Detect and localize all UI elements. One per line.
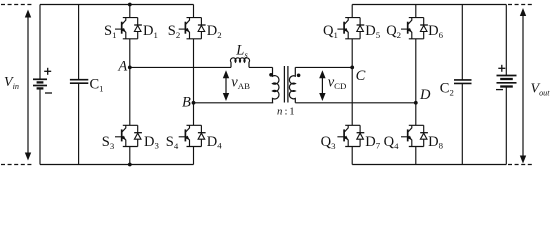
wire top-right dashed lead-in <box>508 4 534 6</box>
svg-text:B: B <box>182 95 191 111</box>
battery V_out load <box>496 65 517 90</box>
wire transformer to node D <box>295 102 416 104</box>
diode D3 <box>134 125 142 146</box>
node C dot <box>350 66 354 70</box>
capacitor C2 <box>454 80 472 84</box>
wire leg1L bottom stub <box>129 147 131 165</box>
battery V_in source <box>33 68 52 93</box>
wire inductor to transformer <box>249 66 273 68</box>
transformer secondary polarity dot <box>297 74 301 78</box>
inductor Ls <box>230 58 249 68</box>
wire transformer to node C <box>295 66 352 68</box>
diode D1 <box>134 18 142 39</box>
wire node B to transformer <box>194 102 274 104</box>
switch Q2 (IGBT) <box>401 18 424 39</box>
junction dot leg1L top <box>128 3 132 7</box>
wire leg1R top stub <box>351 5 353 18</box>
transformer secondary winding <box>289 67 295 102</box>
wire leg1R mid (through node C) <box>351 39 353 126</box>
wire C1 upper stub <box>78 5 80 80</box>
wire bottom rail left <box>40 164 194 166</box>
switch S1 (IGBT) <box>115 18 138 39</box>
v_CD voltage arrow <box>319 70 325 101</box>
wire bottom-right dashed lead-in <box>508 164 534 166</box>
v_AB voltage arrow <box>223 70 229 101</box>
wire leg2L bottom stub <box>193 147 195 165</box>
wire leg2R bottom stub <box>415 147 417 165</box>
svg-text:A: A <box>117 59 127 75</box>
wire top rail right <box>352 4 506 6</box>
wire C2 upper stub <box>461 5 463 80</box>
switch Q1 (IGBT) <box>337 18 360 39</box>
wire top-left dashed lead-in <box>1 4 34 6</box>
wire bottom rail right <box>352 164 506 166</box>
switch S4 (IGBT) <box>179 125 202 146</box>
wire right rail upper <box>505 5 507 76</box>
wire leg2R mid (through node D) <box>415 39 417 126</box>
node A dot <box>128 66 132 70</box>
diode D5 <box>357 18 365 39</box>
wire right rail lower <box>505 87 507 165</box>
node D dot <box>414 101 418 105</box>
transformer primary polarity dot <box>269 73 273 77</box>
diode D4 <box>198 125 206 146</box>
wire top rail left <box>40 4 194 6</box>
svg-text:C: C <box>356 68 366 84</box>
transformer primary winding <box>273 67 279 102</box>
svg-text:n:1: n:1 <box>277 105 295 117</box>
wire C1 lower stub <box>78 83 80 164</box>
junction dot leg1L bottom <box>128 163 132 167</box>
transformer core <box>284 66 288 103</box>
diode D2 <box>198 18 206 39</box>
capacitor C1 <box>70 80 88 84</box>
wire left rail lower <box>39 88 41 164</box>
wire node A to inductor <box>130 66 231 68</box>
wire leg1L top stub <box>129 5 131 18</box>
svg-text:D: D <box>419 87 431 103</box>
diode D7 <box>357 125 365 146</box>
node B dot <box>192 101 196 105</box>
wire left rail upper <box>39 5 41 80</box>
V_out voltage arrow <box>520 8 526 164</box>
switch S2 (IGBT) <box>179 18 202 39</box>
switch Q3 (IGBT) <box>337 125 360 146</box>
wire leg2L mid (through node B) <box>193 39 195 126</box>
wire leg1L mid (through node A) <box>129 39 131 126</box>
V_in voltage arrow <box>25 10 31 161</box>
switch Q4 (IGBT) <box>401 125 424 146</box>
diode D8 <box>420 125 428 146</box>
wire leg2L top stub <box>193 5 195 18</box>
wire bottom-left dashed lead-in <box>1 164 34 166</box>
wire leg2R top stub <box>415 5 417 18</box>
wire leg1R bottom stub <box>351 147 353 165</box>
switch S3 (IGBT) <box>115 125 138 146</box>
wire C2 lower stub <box>461 83 463 164</box>
diode D6 <box>420 18 428 39</box>
